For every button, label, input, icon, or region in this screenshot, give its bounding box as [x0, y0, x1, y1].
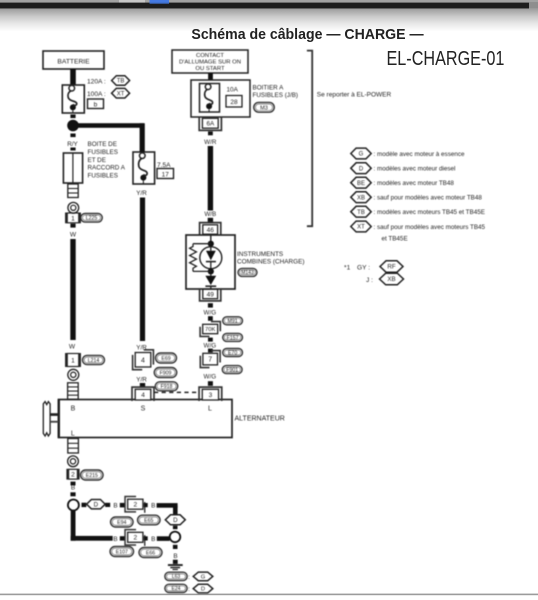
svg-text:46: 46 [207, 227, 215, 234]
svg-text:W/G: W/G [204, 342, 217, 349]
svg-text:G: G [359, 152, 364, 158]
svg-text:D: D [173, 517, 178, 524]
svg-text:F918: F918 [161, 384, 173, 390]
svg-text:B: B [71, 485, 75, 492]
svg-text:XT: XT [357, 225, 365, 231]
svg-text:F909: F909 [160, 370, 172, 376]
svg-text:6A: 6A [206, 121, 215, 128]
svg-text:17: 17 [162, 172, 170, 179]
svg-text:FUSIBLES: FUSIBLES [88, 149, 118, 156]
svg-text:Y/R: Y/R [136, 190, 147, 197]
svg-text:: modèles avec moteurs TB45 et: : modèles avec moteurs TB45 et TB45E [374, 209, 485, 216]
svg-text:: modèles avec moteur diesel: : modèles avec moteur diesel [374, 166, 456, 173]
svg-text:: sauf pour modèles avec moteu: : sauf pour modèles avec moteurs TB45 [374, 224, 486, 231]
svg-text:OU START: OU START [195, 66, 225, 72]
svg-text:Se reporter à EL-POWER: Se reporter à EL-POWER [317, 91, 392, 98]
svg-text:F157: F157 [227, 335, 239, 341]
svg-text::: : [188, 574, 190, 581]
svg-text:W/G: W/G [204, 309, 217, 316]
svg-text:FUSIBLES: FUSIBLES [88, 173, 118, 180]
svg-text:L: L [71, 430, 75, 437]
svg-text:D: D [359, 166, 364, 172]
svg-text:BOITE DE: BOITE DE [88, 141, 117, 148]
svg-text:100A :: 100A : [87, 91, 106, 98]
svg-text:BE: BE [357, 181, 365, 187]
svg-text:R/Y: R/Y [67, 141, 78, 148]
svg-text:BOITIER A: BOITIER A [253, 85, 285, 92]
svg-text:: modèles avec moteur TB48: : modèles avec moteur TB48 [374, 180, 455, 187]
svg-text:S: S [141, 406, 146, 413]
svg-text:D'ALLUMAGE SUR ON: D'ALLUMAGE SUR ON [179, 60, 241, 66]
svg-text:2: 2 [71, 472, 75, 479]
svg-text:RF: RF [387, 264, 395, 271]
svg-text:49: 49 [207, 291, 215, 298]
svg-text:M91: M91 [228, 319, 238, 325]
svg-text:TB: TB [357, 210, 365, 216]
svg-text:W/B: W/B [204, 211, 216, 218]
svg-text:E94: E94 [117, 520, 126, 526]
svg-text:XT: XT [117, 91, 125, 97]
svg-text:B: B [71, 406, 76, 413]
svg-text:E66: E66 [146, 550, 155, 556]
svg-text:BATTERIE: BATTERIE [57, 58, 90, 65]
svg-text:E24: E24 [172, 586, 181, 592]
svg-text:GY :: GY : [357, 265, 370, 272]
svg-text:ET DE: ET DE [88, 157, 106, 164]
svg-text:: modèle avec moteur à essence: : modèle avec moteur à essence [374, 151, 466, 158]
svg-text:3: 3 [209, 392, 213, 399]
svg-text:E70: E70 [228, 350, 237, 356]
svg-text:W/G: W/G [204, 374, 217, 381]
svg-text:L: L [208, 406, 212, 413]
svg-text:INSTRUMENTS: INSTRUMENTS [237, 251, 283, 258]
svg-text:4: 4 [141, 357, 145, 364]
svg-text:: sauf pour modèles avec moteu: : sauf pour modèles avec moteur TB48 [374, 195, 483, 202]
svg-text:4: 4 [141, 392, 145, 399]
svg-text:Y/R: Y/R [136, 377, 147, 384]
svg-text:M3: M3 [260, 105, 268, 111]
svg-text:E69: E69 [161, 356, 170, 362]
svg-text:E65: E65 [144, 518, 153, 524]
svg-text:D: D [201, 587, 205, 593]
svg-text:2: 2 [133, 535, 137, 542]
svg-text:COMBINES (CHARGE): COMBINES (CHARGE) [237, 259, 304, 266]
svg-text:L214: L214 [88, 358, 100, 364]
svg-text:E107: E107 [116, 549, 128, 555]
svg-text:1: 1 [71, 357, 75, 364]
svg-text:XB: XB [357, 195, 365, 201]
svg-text:B: B [173, 553, 177, 560]
svg-text:B: B [113, 536, 117, 543]
svg-text:7.5A: 7.5A [157, 162, 171, 169]
svg-text:F901: F901 [226, 367, 238, 373]
svg-text:1: 1 [71, 215, 75, 222]
svg-text:28: 28 [230, 99, 238, 106]
svg-text::: : [188, 586, 190, 593]
svg-text:W: W [70, 232, 77, 239]
svg-text:B: B [151, 503, 155, 510]
svg-text:2: 2 [133, 502, 137, 509]
svg-text:*1: *1 [344, 265, 351, 272]
svg-text:G: G [201, 574, 206, 580]
svg-text:M143: M143 [241, 270, 254, 276]
svg-text:et TB45E: et TB45E [382, 236, 408, 243]
svg-text:120A :: 120A : [87, 79, 106, 86]
svg-text:B: B [151, 536, 155, 543]
svg-text:ALTERNATEUR: ALTERNATEUR [235, 415, 285, 422]
svg-text:EL-CHARGE-01: EL-CHARGE-01 [387, 46, 505, 69]
svg-text:L63: L63 [172, 574, 181, 580]
svg-text:FUSIBLES (J/B): FUSIBLES (J/B) [253, 92, 299, 99]
svg-text:J :: J : [366, 277, 373, 284]
svg-text:Schéma de câblage — CHARGE —: Schéma de câblage — CHARGE — [191, 27, 424, 44]
svg-text:b: b [94, 102, 98, 109]
svg-text:7: 7 [208, 357, 212, 364]
svg-text:L225: L225 [86, 216, 98, 222]
svg-text:E215: E215 [86, 473, 98, 479]
svg-text:W: W [69, 344, 76, 351]
svg-text:D: D [94, 501, 99, 508]
svg-text:RACCORD A: RACCORD A [88, 165, 126, 172]
svg-text:XB: XB [387, 276, 395, 283]
svg-text:10A: 10A [227, 87, 239, 94]
svg-text:TB: TB [117, 79, 125, 85]
svg-text:W/R: W/R [204, 139, 217, 146]
svg-text:CONTACT: CONTACT [196, 53, 224, 59]
svg-text:70K: 70K [205, 327, 215, 333]
svg-text:B: B [113, 503, 117, 510]
